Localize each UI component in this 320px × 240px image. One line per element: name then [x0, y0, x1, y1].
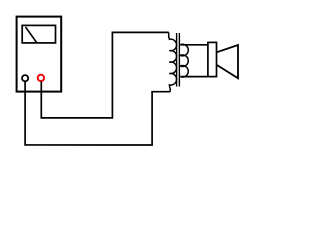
speaker LS1 driver [208, 42, 217, 76]
meter M1 case [17, 17, 62, 92]
wire secondary bottom to speaker [180, 76, 208, 78]
terminal black (negative) [22, 75, 28, 81]
terminal red (positive) [38, 75, 44, 81]
transformer T1 secondary winding [180, 44, 188, 77]
meter M1 needle [26, 27, 37, 42]
wire black terminal down, bottom bus right, up to transformer primary bottom [25, 82, 170, 145]
meter M1 display window [22, 25, 55, 43]
transformer T1 core [177, 33, 180, 87]
wire secondary top to speaker [180, 44, 208, 46]
speaker LS1 horn [217, 45, 238, 78]
transformer T1 primary winding [169, 32, 177, 91]
wire red terminal down, middle bus right, up, top bus right to transformer primary top [41, 32, 168, 118]
